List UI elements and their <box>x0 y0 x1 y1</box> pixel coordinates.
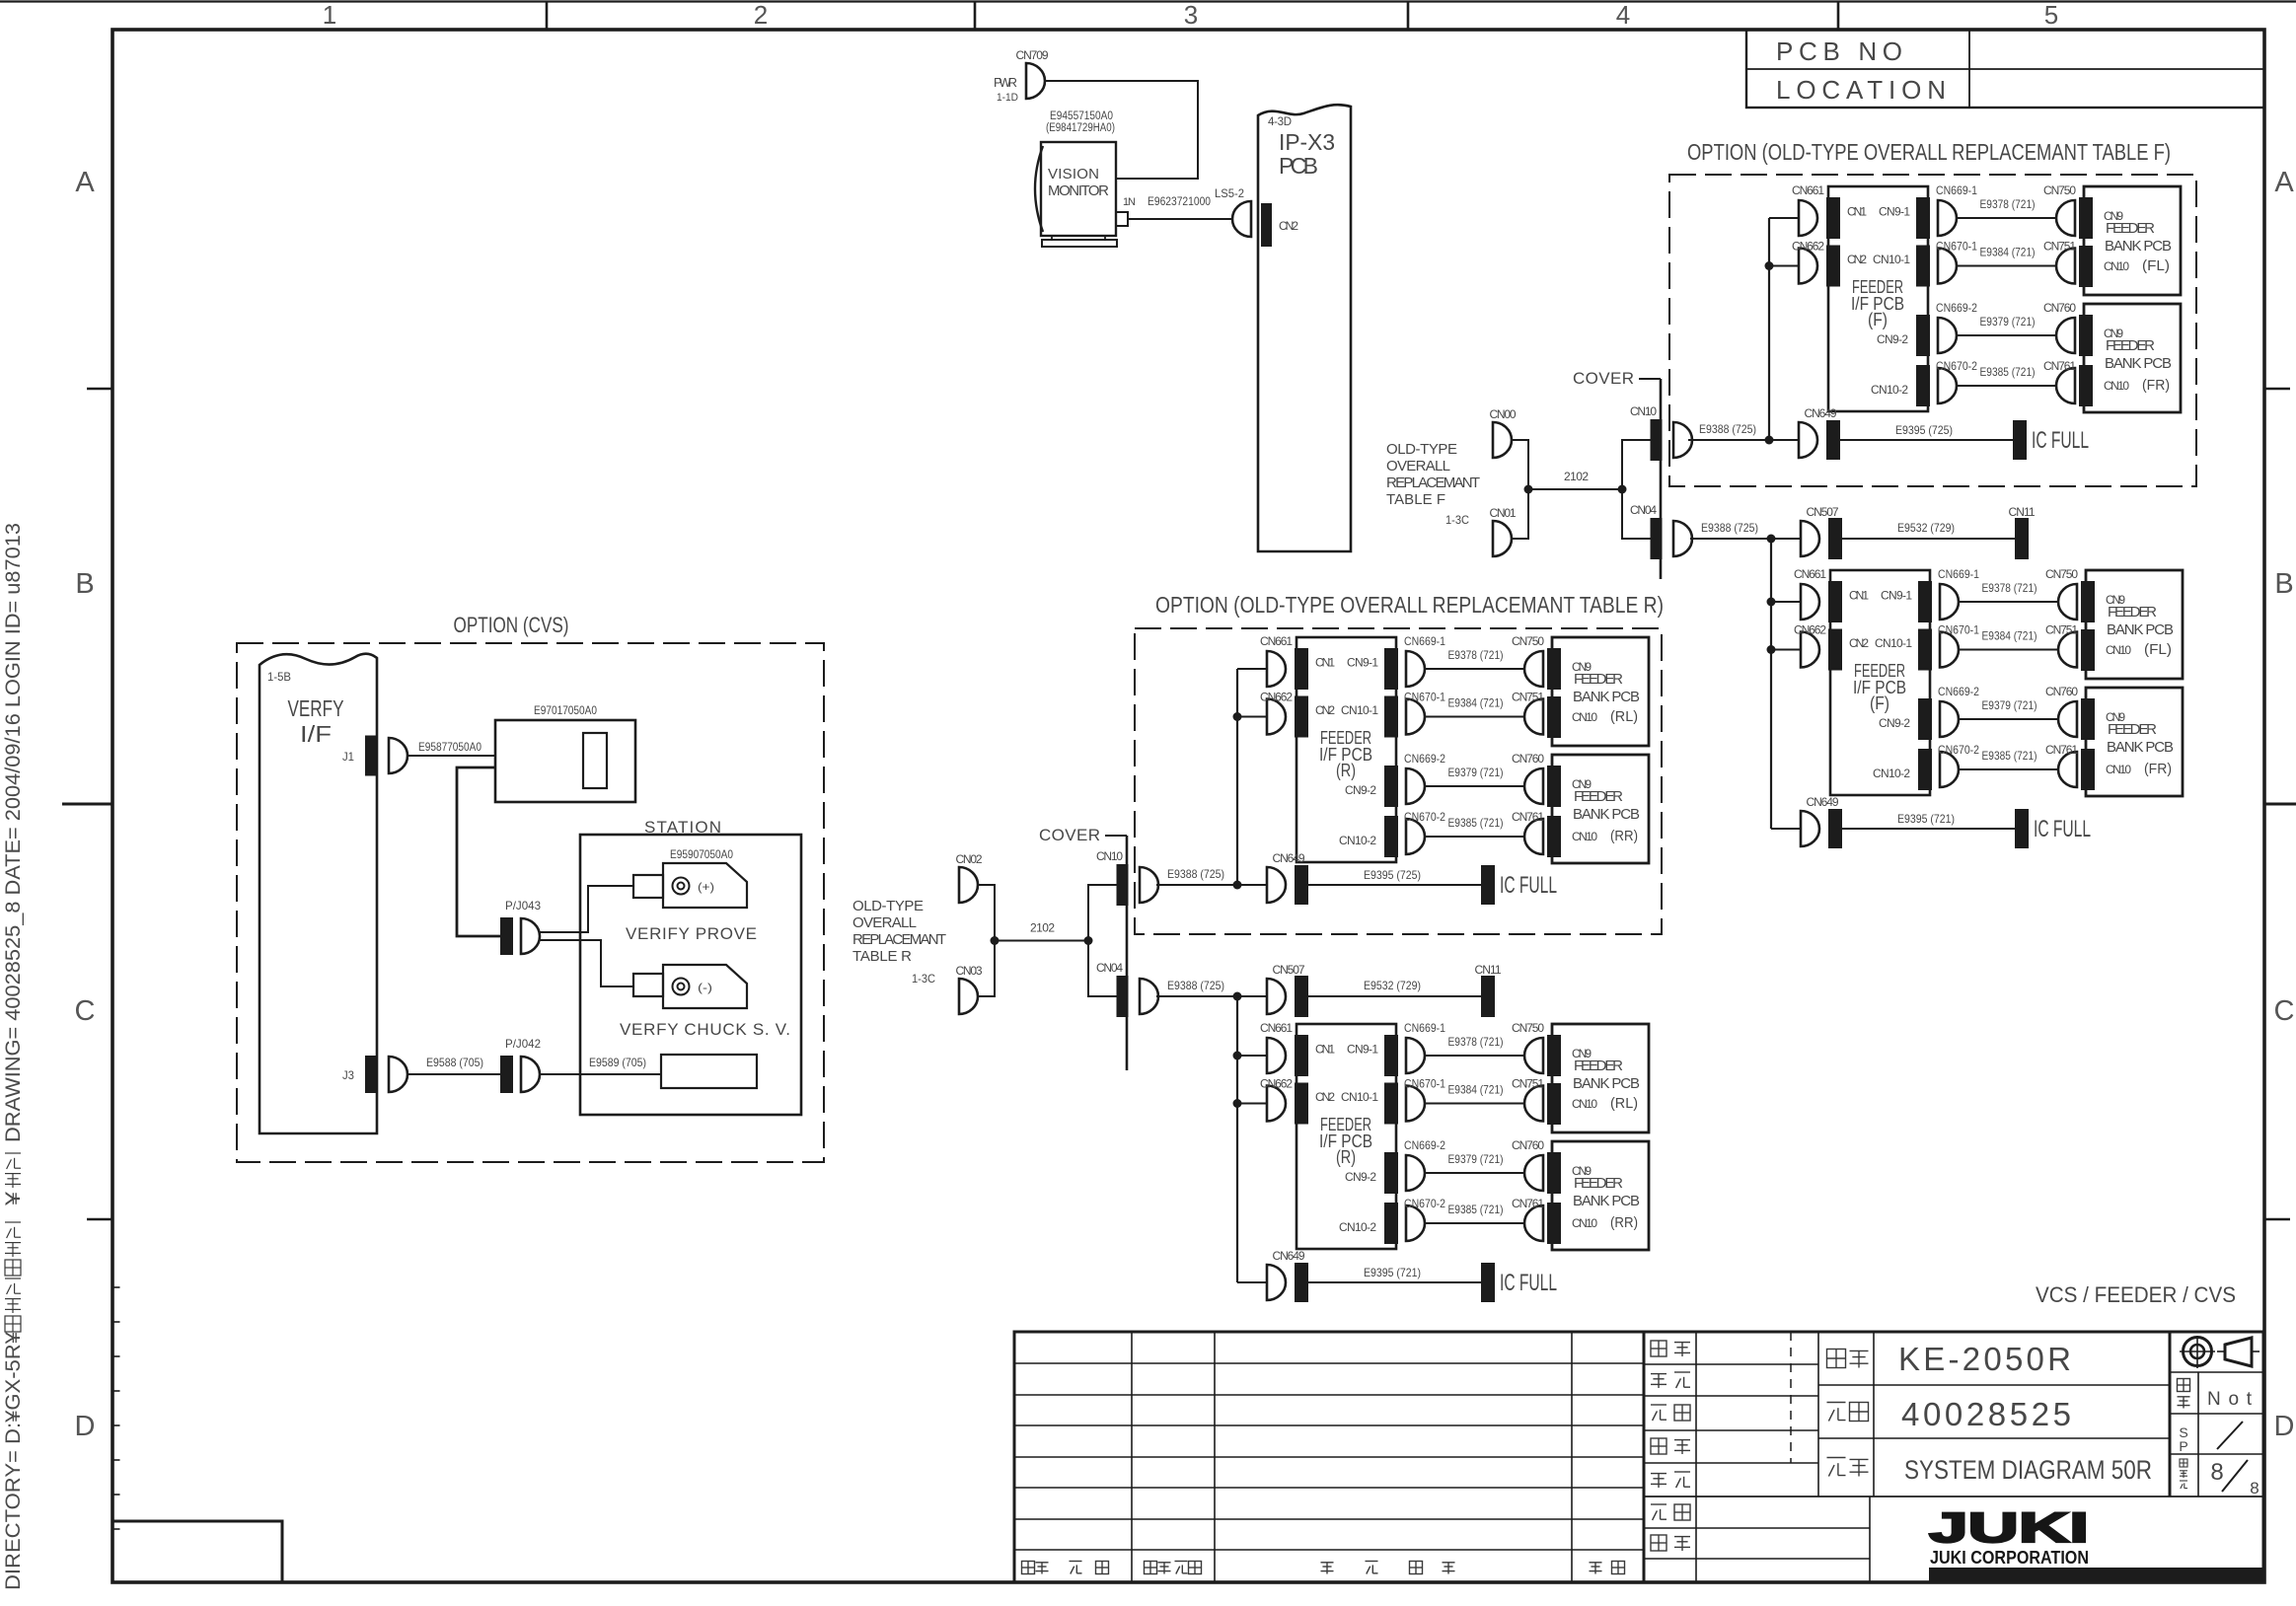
junction dot left 2102 F <box>1524 485 1533 494</box>
pad CN10 bank RR group R1 <box>1547 816 1561 857</box>
JUKI logo underline bar <box>1929 1568 2265 1581</box>
connector CN03 <box>959 979 978 1014</box>
svg-text:CN9-1: CN9-1 <box>1347 656 1378 670</box>
svg-text:CN669-2: CN669-2 <box>1404 1138 1445 1152</box>
svg-text:2: 2 <box>754 0 768 30</box>
svg-text:SYSTEM DIAGRAM 50R: SYSTEM DIAGRAM 50R <box>1904 1455 2152 1485</box>
svg-text:B: B <box>2274 568 2293 600</box>
svg-text:FEEDER: FEEDER <box>2108 721 2157 738</box>
wire E9532 (729) group F2 <box>1842 538 2015 540</box>
wire branch to CN661 group F2 <box>1771 601 1801 603</box>
svg-text:E94557150A0: E94557150A0 <box>1050 110 1113 122</box>
svg-text:(E9841729HA0): (E9841729HA0) <box>1046 122 1115 134</box>
pad CN04 F <box>1651 518 1663 559</box>
wire trunk group F2 <box>1770 539 1772 829</box>
wire E9532 (729) group R2 <box>1308 995 1481 997</box>
svg-text:CN10: CN10 <box>2104 259 2129 273</box>
wire E9385 (721) group F1 <box>1957 385 2058 387</box>
svg-text:BANK PCB: BANK PCB <box>1573 1193 1640 1209</box>
svg-text:CN670-1: CN670-1 <box>1936 240 1977 254</box>
junction dot right 2102 F <box>1618 485 1627 494</box>
svg-text:VERFY CHUCK S. V.: VERFY CHUCK S. V. <box>620 1020 790 1039</box>
svg-text:CN10-2: CN10-2 <box>1339 1220 1376 1234</box>
svg-text:CN662: CN662 <box>1260 1077 1293 1091</box>
pad CN10 bank FR group F2 <box>2081 749 2095 790</box>
wire branch to CN661 group R2 <box>1237 1055 1267 1057</box>
connector CN709 (PWR) <box>1026 63 1045 99</box>
svg-text:2102: 2102 <box>1564 470 1589 483</box>
svg-text:CN10: CN10 <box>1572 710 1597 724</box>
FEEDER BANK PCB FL box group F2 <box>2086 570 2183 679</box>
bottom-left stamp box <box>112 1521 282 1582</box>
svg-text:¥: ¥ <box>2 1192 25 1207</box>
pad CN649 group R1 <box>1295 865 1308 905</box>
connector CN649 group F1 <box>1799 422 1817 458</box>
svg-text:CN751: CN751 <box>2045 623 2078 637</box>
pad CN1 group R1 <box>1295 648 1308 690</box>
dashed option box TABLE R <box>1135 628 1662 934</box>
third angle projection symbol cone <box>2225 1338 2252 1366</box>
wire E9385 (721) group R2 <box>1425 1222 1526 1224</box>
svg-text:E9385 (721): E9385 (721) <box>1448 1203 1504 1216</box>
revision table row lines <box>1014 1363 1644 1550</box>
svg-text:Not: Not <box>2207 1389 2255 1410</box>
wire E9378 (721) group R2 <box>1425 1055 1526 1057</box>
svg-text:CN10-2: CN10-2 <box>1871 383 1908 397</box>
junction dot at CN662 branch group F1 <box>1765 261 1774 270</box>
svg-text:CN2: CN2 <box>1849 636 1869 650</box>
pad CN9-2 group R2 <box>1384 1152 1398 1194</box>
svg-text:CN649: CN649 <box>1273 851 1305 865</box>
FEEDER BANK PCB RL box group R2 <box>1552 1024 1649 1132</box>
svg-text:CN1: CN1 <box>1847 205 1867 219</box>
pad IC FULL group R2 <box>1481 1263 1495 1302</box>
top ruler tick 4-5 <box>1837 2 1840 30</box>
label shakudo (scale) <box>2178 1379 2190 1392</box>
svg-text:CN662: CN662 <box>1794 623 1826 637</box>
machine boundary line R <box>1126 836 1129 1070</box>
wire PWR to vision monitor <box>1046 81 1198 179</box>
wire E9379 (721) group F1 <box>1957 334 2058 336</box>
connector CN761 group F1 <box>2056 368 2075 403</box>
connector CN751 group F1 <box>2056 249 2075 284</box>
svg-text:CN760: CN760 <box>1512 752 1544 766</box>
pad CN9 bank RL group R1 <box>1547 648 1561 690</box>
right ruler tick B-C <box>2264 803 2296 806</box>
connector CN661 group R1 <box>1267 651 1286 687</box>
svg-text:E9589 (705): E9589 (705) <box>589 1056 646 1069</box>
svg-text:I/F: I/F <box>300 721 332 747</box>
wire branch to CN649 group F2 <box>1771 828 1801 830</box>
wire junction to CN04 pad F <box>1622 489 1651 539</box>
svg-text:4-3D: 4-3D <box>1268 116 1292 128</box>
inner rect of E97017050A0 unit <box>583 733 607 788</box>
connector CN662 group R2 <box>1267 1086 1286 1122</box>
FEEDER I/F PCB (R) box group R2 <box>1296 1024 1396 1249</box>
svg-text:CN04: CN04 <box>1096 961 1123 975</box>
svg-text:KE-2050R: KE-2050R <box>1898 1341 2073 1377</box>
wire E9378 (721) group R1 <box>1425 668 1526 670</box>
top ruler line <box>0 0 2296 2</box>
dashed option box TABLE F <box>1669 175 2196 486</box>
svg-text:MONITOR: MONITOR <box>1048 182 1109 199</box>
IP-X3 PCB board outline <box>1258 105 1351 551</box>
svg-text:CN649: CN649 <box>1805 406 1837 420</box>
top ruler tick 2-3 <box>974 2 977 30</box>
svg-text:CN2: CN2 <box>1847 253 1867 266</box>
wire 2102 F <box>1528 488 1622 490</box>
svg-text:CN761: CN761 <box>2045 743 2078 757</box>
junction dot at CN662 branch group R1 <box>1233 712 1242 721</box>
pad CN649 group R2 <box>1295 1263 1308 1302</box>
svg-text:C: C <box>75 995 96 1027</box>
pad CN10 bank RR group R2 <box>1547 1203 1561 1244</box>
label hinmei (part name) <box>1827 1458 1846 1477</box>
(-) probe terminal block <box>633 974 663 996</box>
svg-text:CN760: CN760 <box>1512 1138 1544 1152</box>
svg-text:VCS / FEEDER / CVS: VCS / FEEDER / CVS <box>2036 1282 2236 1307</box>
FEEDER BANK PCB FR box group F2 <box>2086 688 2183 796</box>
pad CN9-1 group F2 <box>1918 581 1932 622</box>
svg-text:E95877050A0: E95877050A0 <box>418 740 481 754</box>
pad CN9-2 group F1 <box>1916 315 1930 356</box>
svg-text:CN670-1: CN670-1 <box>1404 1077 1445 1091</box>
svg-text:CN9-2: CN9-2 <box>1877 332 1908 346</box>
svg-text:PWR: PWR <box>994 75 1017 90</box>
svg-text:IC FULL: IC FULL <box>1500 1270 1557 1296</box>
svg-text:(F): (F) <box>1870 693 1889 713</box>
right ruler tick C-D <box>2264 1218 2290 1221</box>
svg-text:CN04: CN04 <box>1630 503 1657 517</box>
wire CN02 to junction <box>978 885 995 941</box>
svg-text:CN00: CN00 <box>1490 407 1517 421</box>
junction dot trunk on E9388 wire group F2 <box>1767 535 1776 544</box>
wire E9588 (705) <box>407 1073 500 1075</box>
right ruler tick A-B <box>2264 388 2290 391</box>
svg-text:C: C <box>2274 995 2295 1027</box>
svg-text:1N: 1N <box>1123 196 1136 208</box>
pad CN2 on IP-X3 <box>1261 203 1272 247</box>
svg-text:BANK PCB: BANK PCB <box>1573 806 1640 823</box>
svg-text:CN10: CN10 <box>1096 849 1123 863</box>
svg-text:E9588 (705): E9588 (705) <box>426 1056 483 1069</box>
svg-text:E9378 (721): E9378 (721) <box>1982 581 2037 595</box>
pad CN10-1 group R1 <box>1384 696 1398 738</box>
left margin comb ticks <box>112 1287 120 1529</box>
svg-text:BANK PCB: BANK PCB <box>1573 689 1640 705</box>
pad CN10-2 group F1 <box>1916 365 1930 406</box>
svg-text:BANK PCB: BANK PCB <box>2105 238 2172 255</box>
connector CN662 group R1 <box>1267 699 1286 735</box>
wire branch to CN662 group R2 <box>1237 1103 1267 1105</box>
STATION box <box>580 835 801 1115</box>
connector CN670-2 group R2 <box>1406 1205 1425 1241</box>
svg-text:REPLACEMANT: REPLACEMANT <box>852 931 946 948</box>
pad CN2 group R1 <box>1295 696 1308 738</box>
connector CN751 group R1 <box>1524 699 1543 735</box>
connector CN661 group R2 <box>1267 1038 1286 1073</box>
svg-text:A: A <box>2274 167 2294 198</box>
svg-text:CN9-2: CN9-2 <box>1345 783 1376 797</box>
pad CN9-1 group F1 <box>1916 197 1930 239</box>
pad CN10 bank RL group R2 <box>1547 1083 1561 1125</box>
pad CN10-2 group F2 <box>1918 749 1932 790</box>
connector CN649 group F2 <box>1801 811 1819 846</box>
svg-text:JUKI CORPORATION: JUKI CORPORATION <box>1930 1548 2089 1568</box>
right info cell lines <box>2197 1372 2199 1496</box>
wire E9384 (721) group R1 <box>1425 716 1526 718</box>
vision monitor stand <box>1052 236 1105 240</box>
pad CN649 group F2 <box>1828 809 1842 848</box>
svg-text:CN9-1: CN9-1 <box>1879 205 1910 219</box>
pad P/J042 <box>500 1056 513 1093</box>
svg-text:IC FULL: IC FULL <box>2032 427 2089 454</box>
svg-text:E9384 (721): E9384 (721) <box>1448 696 1504 710</box>
approval table lines <box>1695 1332 1697 1582</box>
svg-text:OVERALL: OVERALL <box>852 914 917 931</box>
pad IC FULL group F1 <box>2013 420 2027 460</box>
approval dashed separator <box>1790 1332 1792 1463</box>
connector CN669-2 group F1 <box>1938 318 1957 353</box>
connector CN507 group F2 <box>1801 521 1819 556</box>
svg-text:(FR): (FR) <box>2144 761 2172 777</box>
pad CN9 bank FR group F1 <box>2079 315 2093 356</box>
svg-text:E97017050A0: E97017050A0 <box>534 703 597 717</box>
svg-text:E9384 (721): E9384 (721) <box>1448 1083 1504 1097</box>
left ruler tick C-D <box>87 1218 112 1221</box>
svg-text:CN751: CN751 <box>1512 1077 1544 1091</box>
connector CN507 group R2 <box>1267 979 1286 1014</box>
svg-text:40028525: 40028525 <box>1901 1396 2073 1432</box>
svg-text:CN1: CN1 <box>1849 589 1869 603</box>
pad CN10-1 group F1 <box>1916 246 1930 287</box>
svg-text:E9623721000: E9623721000 <box>1148 194 1211 208</box>
connector CN750 group R2 <box>1524 1038 1543 1073</box>
connector J3 <box>389 1057 407 1092</box>
svg-text:CN9-2: CN9-2 <box>1879 716 1910 730</box>
svg-text:LS5-2: LS5-2 <box>1215 186 1244 200</box>
svg-text:E9385 (721): E9385 (721) <box>1980 365 2036 379</box>
svg-text:1-3C: 1-3C <box>912 972 935 985</box>
svg-text:CN10-1: CN10-1 <box>1873 253 1910 266</box>
(+) probe body <box>663 863 747 908</box>
svg-text:(FL): (FL) <box>2144 641 2172 658</box>
svg-text:8: 8 <box>2250 1479 2259 1497</box>
connector CN02 <box>959 867 978 903</box>
wire junction to CN10 pad F <box>1622 440 1651 489</box>
FEEDER BANK PCB RR box group R2 <box>1552 1141 1649 1250</box>
svg-text:E95907050A0: E95907050A0 <box>670 847 733 861</box>
svg-text:E9378 (721): E9378 (721) <box>1980 197 2036 211</box>
svg-text:3: 3 <box>1184 0 1198 30</box>
svg-text:CN507: CN507 <box>1807 505 1839 519</box>
wire trunk group R2 <box>1236 996 1238 1282</box>
svg-text:D: D <box>2274 1411 2295 1442</box>
svg-text:CN670-2: CN670-2 <box>1404 810 1445 824</box>
svg-text:OPTION (OLD-TYPE OVERALL REPLA: OPTION (OLD-TYPE OVERALL REPLACEMANT TAB… <box>1155 592 1664 618</box>
pad P/J043 <box>500 917 513 955</box>
pad CN1 group F2 <box>1828 581 1842 622</box>
pad IC FULL group F2 <box>2015 809 2029 848</box>
connector J1 <box>389 738 407 773</box>
wire trunk group R1 <box>1236 669 1238 885</box>
connector CN761 group R1 <box>1524 819 1543 854</box>
svg-text:CN1: CN1 <box>1315 1043 1335 1057</box>
svg-text:OLD-TYPE: OLD-TYPE <box>1386 441 1457 458</box>
svg-text:CN10: CN10 <box>1572 1216 1597 1230</box>
connector CN00 <box>1493 422 1512 458</box>
connector CN670-1 group F1 <box>1938 249 1957 284</box>
svg-text:CN670-2: CN670-2 <box>1404 1197 1445 1210</box>
pad CN1 group F1 <box>1826 197 1840 239</box>
svg-text:E9385 (721): E9385 (721) <box>1982 749 2037 763</box>
svg-text:A: A <box>75 167 95 198</box>
svg-text:FEEDER: FEEDER <box>1574 788 1623 805</box>
svg-text:TABLE F: TABLE F <box>1386 491 1445 508</box>
svg-text:CN661: CN661 <box>1794 567 1826 581</box>
wire E9623721000 <box>1128 218 1231 220</box>
svg-text:BANK PCB: BANK PCB <box>2107 739 2174 756</box>
svg-text:CN10: CN10 <box>1630 404 1657 418</box>
revision table column lines <box>1131 1332 1133 1582</box>
svg-text:(FR): (FR) <box>2142 377 2170 394</box>
svg-text:JUKI: JUKI <box>1929 1504 2089 1552</box>
pad J1 <box>365 736 378 776</box>
pad CN9-1 group R2 <box>1384 1035 1398 1076</box>
wire trunk group F1 <box>1768 218 1770 440</box>
(+) probe terminal block <box>633 875 663 898</box>
connector CN04 R <box>1140 979 1158 1014</box>
svg-text:CN661: CN661 <box>1260 1021 1293 1035</box>
top ruler tick 1-2 <box>546 2 549 30</box>
svg-text:CN761: CN761 <box>1512 810 1544 824</box>
svg-text:CN761: CN761 <box>1512 1197 1544 1210</box>
svg-text:CN670-2: CN670-2 <box>1936 359 1977 373</box>
model table lines <box>1873 1332 1875 1496</box>
svg-text:CN9-1: CN9-1 <box>1347 1043 1378 1057</box>
svg-text:D: D <box>75 1411 96 1442</box>
junction dot right 2102 R <box>1084 936 1093 945</box>
svg-text:CN11: CN11 <box>1475 963 1502 977</box>
svg-text:CN10: CN10 <box>1572 1097 1597 1111</box>
pad CN10-2 group R1 <box>1384 816 1398 857</box>
connector CN669-1 group R1 <box>1406 651 1425 687</box>
svg-text:1-1D: 1-1D <box>997 92 1018 104</box>
svg-text:CN662: CN662 <box>1260 691 1293 704</box>
svg-text:CN10: CN10 <box>2106 763 2131 776</box>
svg-text:IC FULL: IC FULL <box>1500 872 1557 899</box>
svg-text:(RL): (RL) <box>1610 708 1638 725</box>
connector CN751 group F2 <box>2058 632 2077 668</box>
pad CN10-1 group F2 <box>1918 629 1932 671</box>
pad CN11 group R2 <box>1481 976 1495 1017</box>
svg-text:CN750: CN750 <box>1512 1021 1544 1035</box>
svg-text:FEEDER: FEEDER <box>1574 1175 1623 1192</box>
svg-text:E9532 (729): E9532 (729) <box>1897 521 1955 535</box>
wire tap to P/J043 <box>457 767 500 936</box>
svg-text:J3: J3 <box>342 1068 354 1082</box>
svg-text:(RR): (RR) <box>1610 1214 1638 1231</box>
connector CN01 <box>1493 521 1512 556</box>
svg-text:P/J043: P/J043 <box>505 899 541 912</box>
wire E9384 (721) group R2 <box>1425 1103 1526 1105</box>
FEEDER I/F PCB (F) box group F1 <box>1828 186 1928 411</box>
pad J3 <box>365 1056 378 1093</box>
connector CN760 group R1 <box>1524 768 1543 804</box>
vision monitor output stub 1N <box>1116 212 1128 226</box>
svg-text:CN750: CN750 <box>2043 183 2076 197</box>
pad CN9 bank FL group F1 <box>2079 197 2093 239</box>
left margin file info text (rotated) <box>2 1332 25 1590</box>
chuck solenoid box <box>661 1055 757 1088</box>
wire E9378 (721) group F1 <box>1957 217 2058 219</box>
pad CN10 bank RL group R1 <box>1547 696 1561 738</box>
FEEDER I/F PCB (F) box group F2 <box>1830 570 1930 795</box>
svg-text:P: P <box>2179 1438 2187 1454</box>
svg-text:E9395 (721): E9395 (721) <box>1897 812 1955 826</box>
svg-text:CN1: CN1 <box>1315 656 1335 670</box>
pad CN9 bank FR group F2 <box>2081 698 2095 740</box>
svg-text:8: 8 <box>2210 1459 2223 1486</box>
svg-text:(-): (-) <box>698 981 712 994</box>
svg-text:OPTION (CVS): OPTION (CVS) <box>454 613 569 637</box>
svg-text:1-5B: 1-5B <box>267 670 291 684</box>
connector CN669-2 group R2 <box>1406 1155 1425 1191</box>
svg-text:BANK PCB: BANK PCB <box>1573 1075 1640 1092</box>
svg-text:CN10-1: CN10-1 <box>1875 636 1912 650</box>
connector CN669-2 group F2 <box>1940 701 1959 737</box>
wire 2102 R <box>995 940 1088 942</box>
connector CN669-1 group F1 <box>1938 200 1957 236</box>
svg-text:5: 5 <box>2044 0 2058 30</box>
svg-text:CN751: CN751 <box>2043 240 2076 254</box>
svg-text:1-3C: 1-3C <box>1445 513 1469 527</box>
svg-text:CN9-1: CN9-1 <box>1881 589 1912 603</box>
pad CN2 group F2 <box>1828 629 1842 671</box>
connector P/J042 <box>521 1057 540 1092</box>
pad CN649 group F1 <box>1826 420 1840 460</box>
connector CN670-1 group F2 <box>1940 632 1959 668</box>
PCB NO / LOCATION table <box>1746 30 2264 108</box>
svg-text:E9379 (721): E9379 (721) <box>1448 766 1504 779</box>
pad CN9-1 group R1 <box>1384 648 1398 690</box>
pad CN10 F <box>1651 419 1663 461</box>
svg-text:(R): (R) <box>1336 1147 1356 1167</box>
wire E9395 (721) group R2 <box>1308 1281 1481 1283</box>
connector CN10 R <box>1140 867 1158 903</box>
svg-text:(RR): (RR) <box>1610 828 1638 844</box>
svg-text:CN662: CN662 <box>1792 240 1824 254</box>
wire CN03 to junction <box>978 941 995 997</box>
wire junction to CN04 pad R <box>1088 941 1117 997</box>
svg-text:CN750: CN750 <box>1512 634 1544 648</box>
connector CN670-2 group F2 <box>1940 752 1959 787</box>
svg-text:CN10-2: CN10-2 <box>1873 766 1910 780</box>
svg-text:E9395 (725): E9395 (725) <box>1364 868 1421 882</box>
connector CN669-2 group R1 <box>1406 768 1425 804</box>
svg-text:E9378 (721): E9378 (721) <box>1448 1035 1504 1049</box>
pad CN2 group F1 <box>1826 246 1840 287</box>
svg-text:FEEDER: FEEDER <box>2106 220 2155 237</box>
svg-text:CN10: CN10 <box>2106 643 2131 657</box>
pad CN10 bank FL group F1 <box>2079 246 2093 287</box>
svg-text:CN669-2: CN669-2 <box>1938 685 1979 698</box>
pad CN10 bank FR group F1 <box>2079 365 2093 406</box>
svg-text:B: B <box>75 568 94 600</box>
wire branch to CN649 group R2 <box>1237 1281 1267 1283</box>
label katashiki (model) <box>1827 1350 1846 1368</box>
junction dot trunk on E9388 wire group R1 <box>1233 881 1242 890</box>
